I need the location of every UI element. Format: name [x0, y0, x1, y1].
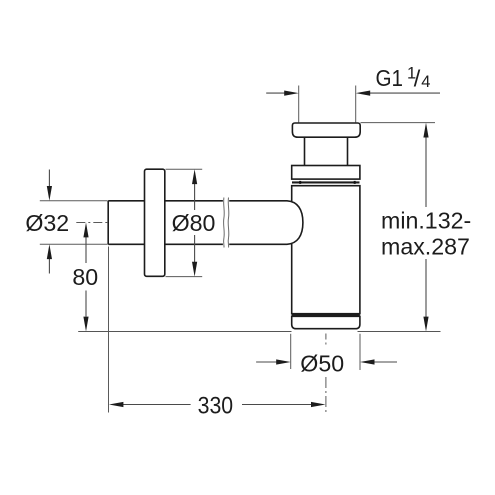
min/max top extension line — [361, 122, 436, 124]
label G1 1/4 — [376, 65, 431, 92]
svg-text:Ø32: Ø32 — [25, 210, 69, 236]
svg-text:Ø80: Ø80 — [172, 210, 216, 236]
floor reference line right segment — [358, 331, 441, 333]
body top seam dark band — [292, 181, 360, 184]
inlet pipe white fill (hides body edge) — [108, 201, 303, 245]
dimension O32 bottom arrow — [47, 244, 52, 273]
pipe break squiggle left — [223, 198, 226, 248]
pipe break squiggle right — [227, 198, 230, 248]
dimension O80 upper arrow — [192, 169, 197, 210]
dimension G1 1/4 line right with arrow — [356, 91, 440, 96]
label 80 — [72, 264, 98, 290]
bottom cap — [292, 316, 360, 328]
dimension 330 left extension line — [108, 247, 110, 413]
dimension G1 1/4 line left with arrow — [266, 91, 299, 96]
dimension O50 extension line right — [359, 334, 361, 370]
dimension O80 extension line bottom — [166, 276, 203, 278]
label min.132-max.287 — [381, 208, 471, 260]
pipe centerline (dash-dot) at left — [76, 222, 108, 224]
dimension O32 extension line top — [40, 200, 108, 202]
svg-text:min.132-: min.132- — [381, 208, 471, 234]
neck pipe — [305, 137, 348, 165]
dimension O50 right arrow — [360, 359, 397, 364]
dimension 330 line with arrows — [109, 402, 326, 407]
trap body cylinder — [292, 186, 360, 314]
dimension O50 extension line left — [290, 334, 292, 369]
label O32 — [25, 210, 69, 236]
dimension G1 1/4 extension line right — [355, 86, 357, 123]
svg-text:4: 4 — [421, 73, 430, 91]
dimension O32 top arrow — [47, 170, 52, 201]
svg-text:80: 80 — [72, 264, 98, 290]
dimension O80 extension line top — [166, 168, 203, 170]
dimension 80 lower arrow — [83, 291, 88, 332]
dimension min.132-max.287 vertical line with arrows — [423, 123, 428, 332]
body centerline below (dash-dot) — [325, 334, 327, 414]
svg-text:/: / — [414, 66, 421, 92]
dimension O50 left arrow — [256, 359, 291, 364]
slip nut ring — [292, 166, 360, 180]
dimension O32 extension line bottom — [40, 243, 108, 245]
inlet pipe outline with curved end — [108, 201, 303, 245]
svg-text:G1: G1 — [376, 65, 404, 91]
svg-text:Ø50: Ø50 — [300, 351, 344, 377]
dimension O80 lower arrow — [192, 235, 197, 277]
label O80 — [172, 210, 216, 236]
dimension 80 upper arrow — [83, 223, 88, 263]
wall flange disc — [145, 169, 165, 276]
label 330 — [198, 392, 234, 419]
dimension G1 1/4 extension line left — [298, 86, 300, 123]
svg-text:330: 330 — [198, 392, 234, 419]
label O50 — [300, 351, 344, 377]
floor reference line left segment — [78, 331, 291, 333]
bottom cap seam dark band — [292, 314, 360, 317]
top flange — [292, 123, 360, 137]
svg-text:max.287: max.287 — [381, 234, 470, 260]
